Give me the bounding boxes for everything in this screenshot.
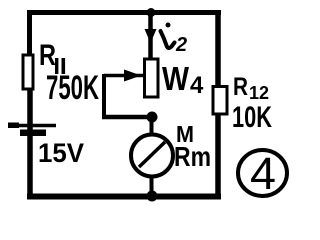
- wire left upper: [27, 10, 32, 57]
- resistor R12: [213, 87, 227, 115]
- wire left lower: [27, 87, 33, 199]
- battery B1 plate short: [20, 130, 46, 137]
- battery B1 plate long: [10, 124, 56, 128]
- meter needle: [139, 142, 165, 167]
- node pot bottom junction: [147, 112, 158, 123]
- svg-text:12: 12: [249, 83, 269, 103]
- label i2: [166, 23, 171, 28]
- svg-text:4: 4: [190, 72, 204, 99]
- current arrow i2: [145, 29, 157, 43]
- svg-text:15V: 15V: [38, 138, 84, 168]
- wire right: [215, 10, 221, 199]
- wire junction to meter: [150, 117, 154, 136]
- svg-text:4: 4: [250, 148, 276, 199]
- wiper arrow of W4: [104, 74, 145, 78]
- svg-text:R: R: [39, 39, 56, 72]
- battery B1 polarity blob: [8, 123, 19, 129]
- svg-text:750K: 750K: [46, 69, 99, 107]
- svg-text:10K: 10K: [232, 101, 272, 134]
- svg-text:2: 2: [175, 34, 187, 56]
- figure number circle 4: [238, 150, 287, 196]
- wire bottom: [27, 194, 221, 200]
- wire meter to bottom: [150, 175, 154, 196]
- resistor R11: [23, 55, 33, 89]
- meter M: [131, 135, 173, 177]
- wire wiper loop bottom: [102, 115, 152, 120]
- node bottom junction: [147, 191, 158, 202]
- wire top: [27, 10, 221, 15]
- svg-text:W: W: [162, 60, 190, 97]
- svg-text:Rm: Rm: [174, 141, 211, 172]
- wire wiper loop vertical: [102, 74, 106, 117]
- wire middle branch upper: [148, 12, 153, 60]
- potentiometer W4: [145, 59, 159, 97]
- node top junction: [147, 8, 156, 17]
- svg-text:R: R: [233, 73, 248, 101]
